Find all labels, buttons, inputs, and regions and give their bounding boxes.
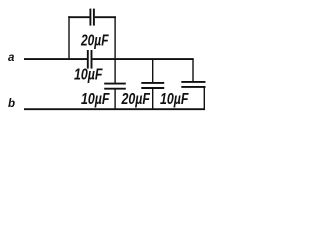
svg-text:20µF: 20µF [121, 91, 151, 108]
label C5 value 10uF [160, 91, 189, 108]
terminal label a [8, 52, 15, 64]
wire: top-right lead of 20uF capacitor [95, 16, 116, 18]
capacitor C4 plates (branch2 20uF) [141, 83, 164, 88]
wire: branch 3 upper [192, 58, 194, 81]
wire: branch 1 upper (box right side, from top of loop through node a) [114, 16, 116, 83]
capacitor C5 plates (branch3 10uF) [181, 82, 205, 87]
wire: branch 1 lower [114, 89, 116, 110]
wire: branch 2 upper [152, 58, 154, 82]
wire: node a horizontal (left of series cap) [24, 58, 87, 60]
label C1 value 20uF [80, 32, 109, 49]
svg-text:20µF: 20µF [80, 32, 109, 49]
capacitor C1 plates (top 20uF) [90, 9, 94, 26]
wire: branch 3 lower [203, 87, 205, 110]
label C4 value 20uF [121, 91, 151, 108]
wire: node a horizontal (right of series cap to branch 3) [92, 58, 193, 60]
svg-text:a: a [8, 52, 15, 64]
capacitor C2 plates (series 10uF in wire a) [88, 50, 92, 69]
capacitor C3 plates (branch1 10uF) [104, 84, 126, 89]
wire: branch 2 lower [152, 88, 154, 109]
wire: top-left lead of 20uF capacitor [68, 16, 89, 18]
svg-text:b: b [8, 98, 15, 110]
terminal label b [8, 98, 15, 110]
svg-text:10µF: 10µF [160, 91, 189, 108]
label C2 value 10uF [74, 66, 103, 83]
svg-text:10µF: 10µF [74, 66, 103, 83]
label C3 value 10uF [81, 91, 110, 108]
svg-text:10µF: 10µF [81, 91, 110, 108]
wire: left side of 20uF bypass loop [68, 16, 70, 60]
wire: node b horizontal [24, 108, 205, 110]
